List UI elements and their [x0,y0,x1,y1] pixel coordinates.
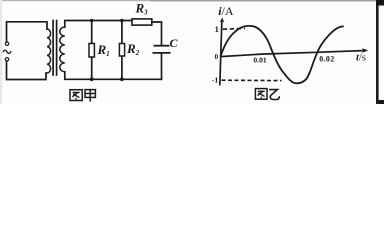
wire: primary top [7,22,48,42]
wire: secondary bottom rail [65,72,162,80]
svg-text:-1: -1 [212,75,219,84]
svg-text:t/s: t/s [356,53,366,64]
svg-text:R1: R1 [97,42,110,58]
transformer secondary coil [60,27,65,72]
svg-text:i/A: i/A [218,4,234,18]
scan top edge line [0,0,384,1]
transformer primary coil [47,29,51,73]
wire: capacitor bottom lead [161,53,163,79]
transformer core line right [56,21,58,76]
svg-text:0: 0 [215,53,219,61]
resistor R1 [89,44,94,58]
y axis [220,19,222,85]
x axis [220,51,366,57]
junction node dots [90,19,124,82]
wire: primary bottom [7,61,47,80]
svg-text:C: C [170,36,179,50]
wire: R3 to corner and down to capacitor [152,22,162,46]
transformer core line left [52,21,54,76]
svg-text:1: 1 [215,24,219,34]
wire: R2 leads [121,21,123,44]
caption figure jia (drawn glyphs) [70,90,95,101]
svg-text:0.02: 0.02 [319,54,334,63]
y axis arrowhead [220,17,225,22]
x axis arrowhead [362,48,369,53]
wire: secondary top rail [65,21,133,28]
capacitor C plates [153,46,171,53]
resistor R3 [132,19,152,25]
dashed level +1 [223,27,245,30]
caption figure yi (drawn glyphs) [255,89,279,100]
ac source tilde [3,50,11,53]
wire: R1 leads [91,21,93,44]
svg-text:R2: R2 [126,41,140,57]
dashed level -1 [222,79,282,81]
right border line [376,0,379,104]
resistor R2 [119,44,124,57]
svg-text:R3: R3 [135,1,149,17]
sine current curve [221,26,344,83]
ac source terminal top [5,42,8,45]
svg-text:0.01: 0.01 [253,55,266,64]
ac source terminal bottom [5,58,8,61]
